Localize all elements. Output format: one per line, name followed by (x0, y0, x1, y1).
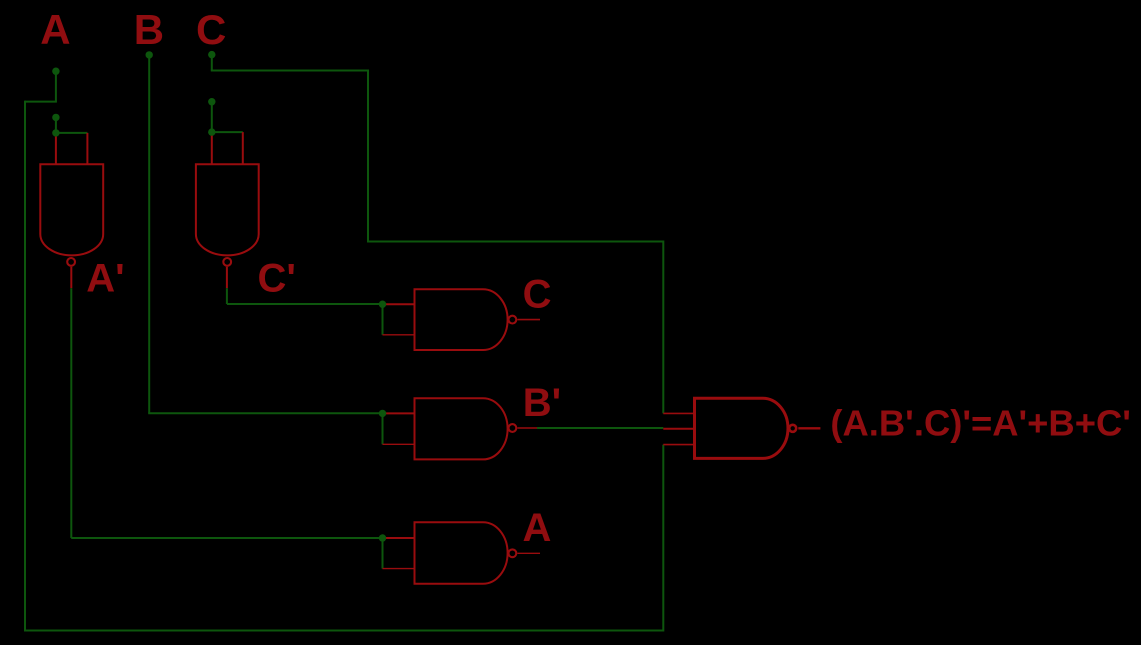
red stub B' gate input 2 (383, 443, 415, 445)
NAND gate U3 body (output C) (415, 289, 508, 350)
svg-text:C': C' (258, 257, 296, 301)
gate U1 red input stub left (55, 133, 57, 164)
wire C' output vertical green (226, 288, 228, 304)
green fork vertical C (382, 304, 384, 335)
red stub gate A input 2 (383, 568, 415, 570)
node B pin dot (146, 51, 153, 58)
wire A left vertical frame (24, 101, 26, 631)
gate U1 red input stub right (86, 133, 88, 164)
red stub gate C input 1 (383, 303, 415, 305)
gate U6 bubble (789, 425, 796, 432)
gate U1 input pin link (55, 117, 57, 132)
gate U4 bubble (509, 424, 517, 432)
node C pin dot (208, 51, 215, 58)
gate U5 output stub (517, 552, 540, 554)
wire C down from pin (211, 55, 213, 71)
NAND gate U2 body (vertical, output C') (196, 164, 259, 255)
svg-text:B: B (134, 6, 164, 53)
red stub B' into big gate input 2 (663, 428, 694, 430)
junction dot C' (379, 301, 386, 308)
junction dot B (379, 410, 386, 417)
red stub gate A input 1 (383, 537, 415, 539)
wire C horizontal at y=241.5 (367, 241, 663, 243)
NAND gate U1 body (vertical, output A') (40, 164, 103, 255)
wire A left at y=101.6 (25, 101, 57, 103)
gate U1 input junction dot (52, 129, 59, 136)
gate U2 output red stub (226, 267, 228, 288)
wire A' output horizontal to gate A junction (71, 537, 382, 539)
NAND gate U6 body (3-input output gate) (695, 398, 788, 458)
wire C top horizontal (211, 70, 368, 72)
gate U2 red input stub left (211, 132, 213, 164)
svg-text:A: A (523, 506, 552, 550)
svg-text:B': B' (523, 381, 561, 425)
gate U2 bubble (223, 258, 231, 266)
gate U2 input tie horizontal (212, 131, 243, 133)
gate U1 bubble (67, 258, 75, 266)
gate U1 input tie horizontal (56, 132, 88, 134)
NAND gate U4 body (output B') (415, 398, 508, 459)
wire B' output green to big gate (537, 427, 663, 429)
green fork vertical B (382, 413, 384, 444)
wire A' output vertical green (70, 288, 72, 538)
gate U3 bubble (509, 316, 517, 324)
gate U5 bubble (509, 549, 517, 557)
NAND gate U5 body (output A) (415, 522, 508, 583)
gate U4 output red stub (517, 427, 537, 429)
green fork vertical A (382, 538, 384, 569)
wire C vertical at x=368 (367, 70, 369, 242)
wire C vertical down to big gate (662, 241, 664, 414)
node A pin dot (52, 68, 59, 75)
red stub B' gate input 1 (383, 412, 415, 414)
gate U2 input pin link (211, 102, 213, 132)
gate U2 input junction dot (208, 128, 215, 135)
svg-text:C: C (523, 272, 552, 316)
gate U2 (C' NAND) input pin dot upper (208, 98, 215, 105)
wire A bottom horizontal (24, 630, 663, 632)
wire A down from pin (55, 71, 57, 101)
gate U3 output stub (517, 319, 540, 321)
wire C' output horizontal to gate C junction (227, 303, 383, 305)
junction dot A' (379, 534, 386, 541)
gate U1 (A' NAND) input pin dot upper (52, 114, 59, 121)
red stub gate C input 2 (383, 334, 415, 336)
svg-text:A: A (40, 6, 70, 53)
svg-text:(A.B'.C)'=A'+B+C': (A.B'.C)'=A'+B+C' (830, 403, 1131, 444)
svg-text:A': A' (86, 257, 124, 301)
gate U6 output stub (798, 427, 820, 429)
wire B horizontal to gate B' junction (148, 412, 382, 414)
gate U2 red input stub right (242, 132, 244, 164)
wire B vertical (148, 55, 150, 413)
svg-text:C: C (196, 6, 226, 53)
red stub C into big gate input 1 (663, 412, 694, 414)
gate U1 output red stub (70, 267, 72, 288)
wire A right vertical up to big gate (662, 445, 664, 632)
red stub A into big gate input 3 (663, 444, 694, 446)
